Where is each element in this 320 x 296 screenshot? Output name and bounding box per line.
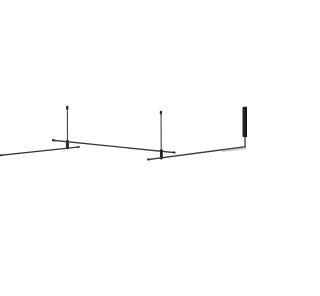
rod L2 (lower-left long rod) <box>0 147 78 155</box>
left suspension stem wire <box>66 109 68 141</box>
rod R2 (right long rod to panel) <box>148 147 245 160</box>
rod L2 shadow near left hub <box>61 150 65 151</box>
rod R2 shadow near panel <box>222 148 247 151</box>
rod L1 (upper long rod, left hub to right hub and beyond) <box>53 140 174 152</box>
left hub connector <box>66 140 69 149</box>
rod R2 left end cap <box>148 158 149 160</box>
rod L1 right end cap <box>174 151 175 153</box>
panel (dark rectangle, cut off at right edge) <box>242 107 247 137</box>
right suspension stem wire <box>160 114 162 150</box>
right suspension knob <box>160 111 162 115</box>
rod L2 left end cap <box>1 154 2 156</box>
panel hanger link <box>244 137 246 148</box>
left suspension knob <box>66 106 68 110</box>
rod L2 right end cap <box>77 146 80 148</box>
right hub connector <box>160 149 163 159</box>
rod L1 left end cap <box>53 139 55 141</box>
